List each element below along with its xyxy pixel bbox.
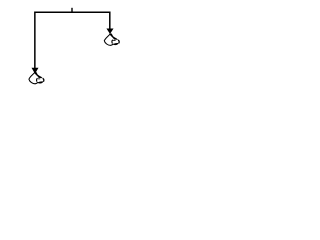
- tick midpoint marker: [71, 8, 73, 13]
- cursor icon right: [104, 34, 119, 46]
- wire: [35, 12, 110, 68]
- arrowhead right: [106, 29, 113, 35]
- arrowhead left: [32, 68, 39, 74]
- cursor icon left: [29, 72, 44, 84]
